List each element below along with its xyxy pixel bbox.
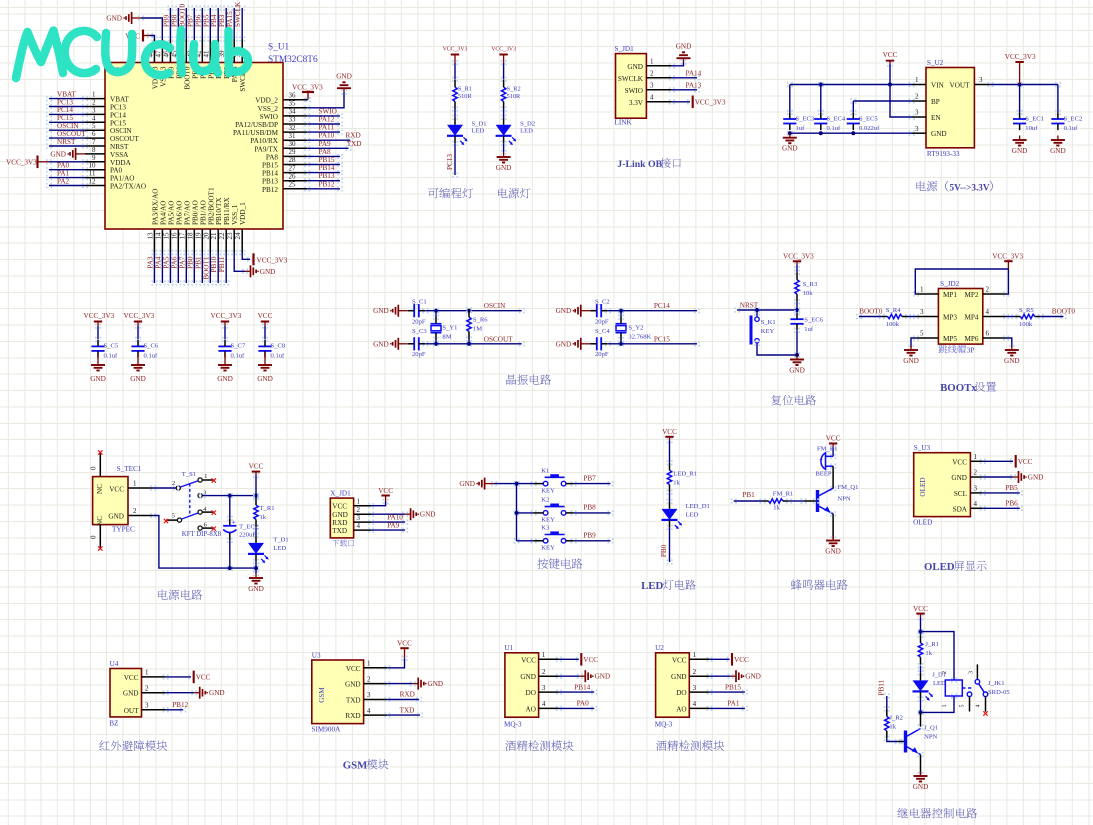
module S_U3 OLED (913, 444, 970, 527)
svg-text:PA12/USB/DP: PA12/USB/DP (235, 121, 278, 129)
wire (905, 314, 911, 319)
ground (903, 346, 919, 366)
svg-text:26: 26 (289, 172, 297, 180)
capacitor S_C6 0.1uf (131, 340, 158, 360)
svg-text:1: 1 (915, 76, 919, 84)
svg-text:0.1uf: 0.1uf (144, 352, 159, 359)
svg-text:TXD: TXD (400, 706, 415, 714)
power VCC (732, 653, 749, 666)
wire (850, 98, 856, 103)
svg-text:VCC: VCC (913, 605, 928, 613)
svg-text:LED: LED (933, 680, 946, 687)
wire (384, 697, 390, 702)
pin 1 (85, 91, 105, 99)
svg-text:U3: U3 (312, 651, 321, 659)
pin 2 (983, 286, 1006, 294)
svg-text:LED: LED (273, 545, 286, 552)
svg-text:GND: GND (373, 307, 389, 315)
net label PB15 (725, 683, 741, 691)
power VCC (883, 51, 898, 64)
pin 3 (354, 514, 371, 522)
svg-text:MQ-3: MQ-3 (655, 721, 673, 729)
wire (850, 98, 856, 103)
ground (90, 354, 106, 383)
wire (46, 159, 52, 164)
svg-text:1: 1 (145, 669, 149, 677)
pin 3 (142, 702, 166, 710)
svg-text:FM_B1: FM_B1 (817, 446, 838, 453)
pin 10 (85, 162, 105, 170)
net label PB9 (162, 14, 170, 27)
svg-text:PB12: PB12 (319, 180, 335, 188)
svg-text:K3: K3 (541, 525, 550, 532)
svg-text:6: 6 (92, 130, 96, 138)
svg-text:PA4: PA4 (154, 256, 162, 269)
power VCC (378, 487, 393, 502)
svg-text:PB6: PB6 (1005, 499, 1018, 507)
svg-text:11: 11 (89, 170, 96, 178)
wire (239, 250, 245, 255)
svg-text:PC13: PC13 (446, 154, 454, 170)
wire (787, 82, 793, 87)
resistor S_R5 100k (1014, 307, 1040, 328)
junction (619, 342, 623, 346)
junction (467, 342, 471, 346)
svg-text:47: 47 (154, 50, 162, 58)
svg-text:9: 9 (92, 154, 96, 162)
svg-text:8M: 8M (442, 334, 451, 341)
svg-text:PA2/TX/AO: PA2/TX/AO (110, 183, 146, 191)
net label OSCOUT (57, 130, 86, 138)
net label PB1 (742, 491, 755, 499)
ground (248, 574, 264, 594)
svg-text:J-Link OB: J-Link OB (617, 159, 662, 170)
svg-text:J_R1: J_R1 (925, 641, 939, 648)
pin 33 (283, 116, 307, 124)
svg-text:OLED: OLED (913, 519, 932, 527)
ground (556, 338, 591, 350)
svg-text:3: 3 (974, 485, 978, 493)
wire (514, 510, 520, 515)
svg-text:BEEP: BEEP (815, 470, 831, 477)
wire (707, 706, 713, 711)
wire (794, 328, 800, 333)
svg-text:S_JD2: S_JD2 (940, 280, 960, 288)
wire (918, 629, 924, 634)
net label PA9 (387, 521, 400, 529)
svg-text:S_C1: S_C1 (412, 298, 427, 305)
pin 4 (970, 500, 982, 508)
wire (175, 250, 181, 255)
svg-text:T_D1: T_D1 (273, 536, 288, 543)
junction (888, 82, 892, 86)
svg-text:PA10: PA10 (387, 513, 403, 521)
svg-text:PB5: PB5 (202, 14, 210, 27)
wire (135, 323, 141, 328)
pin 4 (689, 700, 709, 708)
svg-text:VCC: VCC (952, 458, 967, 466)
transistor FM_Q1 NPN (818, 484, 859, 514)
wire (384, 713, 390, 718)
svg-text:FM_R1: FM_R1 (773, 490, 794, 497)
wire (618, 341, 624, 346)
wire (501, 106, 507, 111)
pin 35 (283, 100, 307, 108)
no connect (98, 450, 102, 454)
net label TXD (347, 140, 362, 148)
svg-text:S_TEC1: S_TEC1 (117, 465, 142, 473)
svg-text:510R: 510R (458, 93, 472, 100)
svg-text:VCC_3V3: VCC_3V3 (84, 312, 115, 320)
net label PA11 (319, 124, 335, 132)
caption 红外避障模块 (99, 740, 109, 750)
net label PB6 (1005, 499, 1018, 507)
connector S_TEC1 TYPEC (93, 465, 142, 534)
svg-text:KEY: KEY (541, 545, 555, 552)
LED S_D1 (447, 117, 487, 145)
net label PB4 (210, 14, 218, 27)
wire (605, 308, 611, 313)
svg-text:TXD: TXD (347, 140, 362, 148)
caption 电源电路 (158, 589, 168, 599)
caption 电源灯 (498, 188, 508, 198)
svg-text:2: 2 (942, 671, 948, 674)
wire (556, 674, 562, 679)
no connect (212, 478, 216, 482)
wire (918, 752, 924, 757)
svg-text:3: 3 (92, 106, 96, 114)
wire (707, 674, 713, 679)
wire (734, 307, 740, 312)
svg-text:PA6/AO: PA6/AO (175, 201, 183, 226)
ground (336, 73, 352, 93)
net label PB15 (319, 156, 335, 164)
wire (754, 307, 760, 312)
resistor S_R4 100k (882, 307, 908, 328)
wire (707, 657, 713, 662)
svg-text:2: 2 (145, 684, 149, 692)
wire (227, 493, 233, 498)
wire (46, 96, 52, 101)
svg-text:VCC: VCC (1018, 458, 1033, 466)
net label PC14 (57, 106, 73, 114)
wire (46, 112, 52, 117)
wire (46, 183, 52, 188)
wire (618, 337, 624, 342)
resistor S_R6 1M (467, 310, 488, 339)
svg-text:GND: GND (671, 673, 687, 681)
svg-text:BOOT0: BOOT0 (178, 3, 186, 27)
no connect (212, 526, 216, 530)
svg-text:4: 4 (357, 522, 361, 530)
caption 晶振电路 (506, 375, 516, 385)
svg-text:1: 1 (92, 91, 96, 99)
power VCC_3V3 (992, 252, 1023, 269)
svg-text:PA9/TX: PA9/TX (254, 145, 279, 153)
pin 46 (162, 39, 170, 63)
net label PC15 (654, 335, 670, 343)
capacitor S_EC2 0.1uf (1051, 113, 1082, 133)
svg-text:K2: K2 (541, 497, 549, 504)
svg-text:PA6: PA6 (170, 256, 178, 269)
svg-text:S_C5: S_C5 (104, 343, 119, 350)
svg-text:8: 8 (92, 146, 96, 154)
junction (514, 511, 518, 515)
transistor J_Q1 NPN (906, 725, 939, 755)
caption OLED屏显示 (924, 561, 987, 573)
connector S_JD2 跳线帽3P (938, 280, 982, 355)
wire (304, 170, 310, 175)
pin 5 (916, 330, 938, 338)
svg-text:VCC: VCC (397, 640, 412, 648)
svg-text:S_C6: S_C6 (144, 343, 159, 350)
svg-text:MP3: MP3 (943, 314, 957, 322)
svg-text:GSM: GSM (343, 760, 368, 772)
svg-text:PB12: PB12 (172, 701, 188, 709)
svg-text:GND: GND (520, 673, 536, 681)
wire (918, 615, 924, 620)
pin 2 (364, 675, 388, 683)
ground (373, 338, 408, 350)
power VCC_3V3 (693, 96, 726, 109)
svg-text:PA12: PA12 (319, 116, 335, 124)
pin 2 (539, 668, 559, 676)
svg-text:MP1: MP1 (943, 291, 957, 299)
wire (1003, 335, 1009, 340)
net label PA1 (57, 169, 70, 177)
svg-text:4: 4 (974, 500, 978, 508)
junction (795, 353, 799, 357)
pin 26 (283, 172, 307, 180)
svg-text:NRST: NRST (57, 138, 76, 146)
junction (851, 131, 855, 135)
net label PA10 (387, 513, 403, 521)
svg-text:VCC: VCC (378, 487, 393, 495)
svg-text:GND: GND (556, 307, 572, 315)
svg-text:PB7: PB7 (186, 14, 194, 27)
svg-text:MQ-3: MQ-3 (504, 721, 522, 729)
pin 1 (689, 651, 709, 659)
wire (159, 250, 165, 255)
svg-text:PA8: PA8 (319, 148, 332, 156)
svg-text:1: 1 (367, 660, 371, 668)
pin 41 (202, 39, 210, 63)
svg-text:VCC: VCC (583, 656, 598, 664)
svg-text:LINK: LINK (615, 119, 633, 127)
capacitor T_EC2 220uF (223, 518, 258, 540)
svg-text:PC14: PC14 (654, 302, 670, 310)
svg-text:35: 35 (289, 100, 297, 108)
svg-text:1k: 1k (925, 650, 932, 657)
pin 5 (85, 122, 105, 130)
wire (669, 87, 675, 92)
svg-text:PC14: PC14 (110, 111, 126, 119)
ground (459, 478, 494, 490)
svg-text:13: 13 (146, 232, 154, 240)
svg-text:0.1uf: 0.1uf (231, 352, 246, 359)
power VCC_3V3 (211, 312, 242, 326)
pin 2 (912, 93, 927, 101)
svg-text:VSS_1: VSS_1 (231, 204, 239, 225)
svg-text:PA11/USB/DM: PA11/USB/DM (233, 129, 279, 137)
wire (466, 307, 472, 312)
pin 31 (283, 132, 307, 140)
svg-text:PB13: PB13 (319, 172, 335, 180)
net label PB12 (319, 180, 335, 188)
capacitor S_C3 20pF (408, 328, 428, 358)
pin 1 (646, 58, 671, 66)
wire (46, 143, 52, 148)
svg-text:PB11/RX: PB11/RX (223, 196, 231, 225)
svg-text:1uf: 1uf (796, 125, 806, 132)
wire (253, 473, 259, 478)
svg-text:AO: AO (526, 705, 536, 713)
power VCC_3V3 (6, 156, 49, 169)
wire (227, 538, 233, 543)
svg-text:GND: GND (903, 357, 919, 365)
svg-text:GND: GND (123, 690, 139, 698)
svg-text:RXD: RXD (400, 691, 415, 699)
svg-text:220uF: 220uF (239, 532, 256, 539)
svg-text:GND: GND (825, 548, 841, 556)
svg-text:GND: GND (595, 673, 611, 681)
svg-text:MP4: MP4 (965, 314, 979, 322)
net label PA4 (154, 256, 162, 269)
svg-text:VBAT: VBAT (57, 90, 76, 98)
push button K2 KEY (534, 497, 574, 524)
pin 30 (283, 140, 307, 148)
ground (50, 148, 85, 160)
net label PB8 (170, 14, 178, 27)
wire (46, 128, 52, 133)
svg-text:20pF: 20pF (595, 351, 609, 358)
svg-text:J_R2: J_R2 (889, 714, 903, 721)
net label BOOT0 (178, 3, 186, 27)
LED S_D2 (496, 117, 536, 145)
svg-text:PA5/AO: PA5/AO (167, 201, 175, 226)
wire (163, 690, 169, 695)
wire (669, 75, 675, 80)
wire (667, 438, 673, 443)
svg-text:4: 4 (542, 700, 546, 708)
svg-text:KFT DIP-8X8: KFT DIP-8X8 (182, 531, 222, 538)
pin 1 (354, 497, 371, 505)
svg-text:VCC_3V3: VCC_3V3 (211, 312, 242, 320)
svg-text:4: 4 (986, 308, 990, 316)
svg-text:GND: GND (428, 680, 444, 688)
ground (194, 687, 224, 699)
ground (130, 354, 146, 383)
wire (253, 559, 259, 564)
net label PB13 (319, 172, 335, 180)
pin 0 (90, 525, 101, 549)
svg-text:OSCIN: OSCIN (110, 127, 132, 135)
pin 3 VOUT (974, 76, 990, 84)
svg-text:1: 1 (133, 480, 137, 488)
pin 11 (85, 170, 105, 178)
svg-text:VCC_3V3: VCC_3V3 (695, 98, 726, 106)
net label NRST (57, 138, 76, 146)
svg-text:VCC_3V3: VCC_3V3 (292, 83, 323, 91)
svg-text:PA9: PA9 (319, 140, 332, 148)
svg-text:PC15: PC15 (654, 335, 670, 343)
ground (245, 265, 275, 277)
svg-text:PB7: PB7 (583, 474, 596, 482)
pin 2 (354, 506, 371, 514)
svg-text:S_EC6: S_EC6 (804, 317, 823, 324)
wire (884, 693, 890, 698)
net label PA2 (57, 177, 70, 185)
svg-text:GND: GND (336, 73, 352, 81)
switch T_S1 KFT DIP-8X8 (172, 471, 222, 538)
svg-text:U2: U2 (655, 644, 664, 652)
pin 28 (283, 156, 307, 164)
net label PB5 (202, 14, 210, 27)
wire (856, 314, 862, 319)
capacitor S_EC1 10uf (1013, 113, 1044, 133)
net label BOOT1 (202, 256, 210, 280)
resistor LED_R1 1k (667, 463, 697, 492)
net label BOOT0 (1052, 308, 1076, 316)
ground (257, 354, 273, 383)
svg-text:MP6: MP6 (965, 335, 979, 343)
junction (228, 566, 232, 570)
wire (895, 739, 901, 744)
pin 3 (912, 109, 927, 117)
svg-text:GND: GND (130, 375, 146, 383)
wire (669, 63, 675, 68)
svg-text:BZ: BZ (109, 720, 118, 728)
svg-text:VCC: VCC (662, 428, 677, 436)
svg-text:22: 22 (218, 232, 226, 240)
net label SWIO (319, 107, 337, 115)
svg-text:GND: GND (209, 689, 225, 697)
power VCC (1016, 455, 1033, 468)
svg-text:VIN: VIN (931, 82, 945, 90)
wire (304, 178, 310, 183)
svg-text:S_K1: S_K1 (761, 319, 776, 326)
capacitor S_EC6 1uf (790, 313, 823, 333)
svg-text:X_JD1: X_JD1 (330, 489, 351, 497)
svg-text:GND: GND (913, 783, 929, 791)
svg-text:KEY: KEY (541, 487, 555, 494)
pin 3 (689, 684, 709, 692)
svg-text:VCC: VCC (109, 486, 124, 494)
pin 2 (970, 469, 982, 477)
svg-text:PB14: PB14 (574, 683, 590, 691)
junction (467, 309, 471, 313)
net label BOOT0 (859, 308, 883, 316)
svg-text:RXD: RXD (332, 519, 347, 527)
wire (231, 5, 237, 10)
pin 3 (916, 308, 938, 316)
wire (918, 663, 924, 668)
power VCC (581, 653, 598, 666)
svg-text:4: 4 (650, 94, 654, 102)
junction (434, 342, 438, 346)
module U3 GSM SIM900A (312, 651, 364, 733)
wire (669, 99, 675, 104)
net label OSCIN (484, 302, 506, 310)
ground (1013, 471, 1043, 483)
ground (913, 772, 929, 792)
svg-text:S_D1: S_D1 (472, 121, 487, 128)
power VCC_3V3 (783, 252, 814, 265)
net label PB1 (194, 256, 202, 269)
svg-text:2: 2 (133, 507, 137, 515)
pin 16 (170, 229, 178, 253)
svg-text:S_D2: S_D2 (520, 121, 535, 128)
